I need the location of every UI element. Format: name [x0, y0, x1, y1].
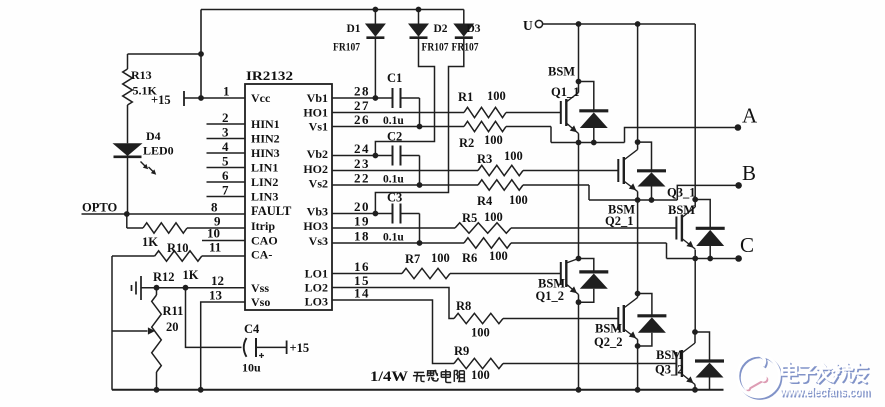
svg-text:BSM: BSM	[656, 348, 683, 362]
wire HIN/LIN pin 6 stub	[207, 181, 246, 183]
wire phase C mid drop	[694, 259, 696, 333]
node top rail / D1 anode junction	[373, 7, 379, 13]
svg-text:LIN3: LIN3	[251, 190, 278, 204]
node bottom bus Q1_2 junction	[576, 387, 582, 393]
svg-text:Q3_2: Q3_2	[655, 363, 683, 377]
terminal C	[735, 255, 742, 262]
svg-text:0.1u: 0.1u	[383, 115, 404, 127]
svg-text:LO3: LO3	[305, 295, 328, 309]
wire HIN/LIN pin 2 stub	[207, 123, 246, 125]
svg-text:6: 6	[222, 168, 229, 183]
wire Vcc rail drop	[200, 10, 202, 99]
svg-text:C: C	[740, 233, 754, 257]
svg-text:LIN2: LIN2	[251, 175, 278, 189]
svg-text:C4: C4	[244, 322, 260, 336]
svg-text:Vb3: Vb3	[307, 205, 328, 219]
svg-text:HO2: HO2	[303, 162, 328, 176]
node Q1_1 emitter junction	[576, 140, 582, 146]
svg-text:IR2132: IR2132	[246, 68, 293, 83]
resistor R6 100 (Vs3)	[332, 238, 667, 265]
svg-text:22: 22	[354, 171, 370, 186]
svg-text:8: 8	[211, 200, 218, 215]
svg-text:Vcc: Vcc	[251, 91, 271, 105]
transistor Q2_1 BSM IGBT with freewheel diode	[605, 139, 666, 228]
svg-text:R2: R2	[459, 136, 474, 150]
svg-text:Vso: Vso	[251, 295, 270, 309]
svg-text:D1: D1	[347, 23, 361, 35]
svg-text:3: 3	[222, 125, 229, 140]
svg-text:Vs3: Vs3	[309, 234, 328, 248]
svg-text:10: 10	[207, 226, 220, 241]
wire phase C node line	[667, 258, 739, 260]
wire phase A output	[625, 128, 738, 143]
transistor Q1_2 BSM IGBT with freewheel diode	[536, 256, 609, 303]
wire phase A mid drop	[578, 143, 580, 259]
svg-text:Q1_1: Q1_1	[551, 85, 579, 99]
svg-text:Q2_1: Q2_1	[605, 214, 633, 228]
node bottom bus Vso junction	[198, 387, 204, 393]
diode D2 FR107	[408, 10, 449, 54]
svg-text:0.1u: 0.1u	[383, 174, 404, 186]
svg-text:11: 11	[209, 240, 221, 255]
svg-text:R4: R4	[477, 194, 493, 208]
wire phase A node line	[551, 142, 625, 144]
transistor Q3_2 BSM IGBT with freewheel diode	[655, 329, 724, 390]
wire CA- feedback drop	[111, 256, 113, 390]
wire Q1_2 emitter to bus	[578, 302, 580, 390]
svg-text:Q1_2: Q1_2	[536, 289, 564, 303]
OPTO input net / FAULT pin 8 wire	[82, 201, 246, 215]
wire HIN/LIN pin 4 stub	[207, 152, 246, 154]
wire phase B mid drop	[637, 200, 639, 294]
wire HIN/LIN pin 7 stub	[207, 196, 246, 198]
svg-text:R13: R13	[131, 68, 152, 82]
svg-text:D3: D3	[467, 23, 481, 35]
svg-text:Q2_2: Q2_2	[594, 335, 622, 349]
svg-text:+15: +15	[151, 93, 171, 107]
transistor Q3_1 BSM IGBT with freewheel diode	[667, 186, 725, 259]
node Q3_1 diode anode junction	[707, 256, 713, 262]
svg-text:Q3_1: Q3_1	[667, 186, 695, 200]
resistor R2 100 (Vs1)	[332, 121, 551, 150]
LED D4 LED0	[113, 105, 174, 214]
node OPTO-LED-FAULT junction	[124, 211, 130, 217]
+15 supply terminal at pin 1	[151, 91, 245, 107]
node Q2_1 emitter junction	[635, 197, 641, 203]
watermark elecfans logo	[738, 355, 781, 398]
node R11 top junction	[154, 285, 160, 291]
svg-text:100: 100	[431, 251, 450, 265]
svg-text:100: 100	[504, 149, 523, 163]
capacitor C2 0.1u	[332, 130, 422, 188]
svg-text:R7: R7	[405, 252, 420, 266]
node U bus phase B tap	[635, 21, 641, 27]
node bottom bus Q3_2 emitter junction	[692, 387, 698, 393]
wire phase B output	[677, 185, 738, 200]
svg-text:100: 100	[487, 89, 506, 103]
svg-text:HO1: HO1	[303, 106, 328, 120]
svg-text:13: 13	[209, 288, 223, 303]
svg-text:R1: R1	[458, 90, 473, 104]
svg-text:LO1: LO1	[305, 267, 328, 281]
svg-text:R5: R5	[462, 211, 477, 225]
svg-text:LIN1: LIN1	[251, 161, 278, 175]
svg-text:LED0: LED0	[143, 144, 174, 158]
resistor 1K on Itrip pin 9	[127, 214, 245, 249]
wire +15 top rail	[201, 9, 464, 11]
svg-text:FR107: FR107	[333, 42, 360, 54]
node bottom bus Q2_2 junction	[635, 387, 641, 393]
svg-text:R8: R8	[456, 299, 471, 313]
svg-text:2: 2	[222, 110, 229, 125]
wire Vss pin 12 line	[141, 268, 245, 288]
svg-text:HIN2: HIN2	[251, 132, 280, 146]
transistor Q2_2 BSM IGBT with freewheel diode	[594, 291, 666, 349]
svg-text:C3: C3	[387, 191, 402, 205]
capacitor C3 0.1u	[332, 191, 422, 246]
svg-text:100: 100	[509, 193, 528, 207]
wire phase B node line	[589, 199, 677, 201]
svg-text:LO2: LO2	[305, 281, 328, 295]
transistor Q1_1 BSM IGBT with freewheel diode	[548, 65, 608, 143]
node Q1_2 emitter-anode junction	[576, 299, 582, 305]
svg-text:C1: C1	[387, 71, 402, 85]
node Vcc-R13 junction	[198, 51, 204, 57]
svg-text:1K: 1K	[183, 268, 199, 282]
wire R13 top branch	[128, 53, 202, 55]
node bottom bus R11 junction	[154, 387, 160, 393]
svg-text:CA-: CA-	[251, 248, 272, 262]
resistor R7 100 (LO1 gate)	[332, 251, 561, 279]
svg-text:BSM: BSM	[548, 65, 575, 79]
diode D1 FR107	[333, 10, 386, 54]
svg-text:100: 100	[484, 210, 503, 224]
resistor R13 5.1K	[123, 54, 158, 105]
svg-text:D4: D4	[146, 129, 161, 143]
resistor R1 100 (HO1 gate)	[332, 89, 561, 118]
svg-text:4: 4	[222, 139, 229, 154]
resistor R9 100 (LO3 gate)	[332, 300, 676, 382]
resistor R3 100 (HO2 gate)	[332, 149, 618, 176]
resistor R5 100 (HO3 gate)	[332, 210, 676, 233]
U supply terminal	[523, 18, 543, 33]
svg-text:R10: R10	[167, 241, 189, 255]
svg-text:20: 20	[354, 199, 370, 214]
svg-text:FR107: FR107	[452, 42, 479, 54]
potentiometer R11 20	[152, 288, 184, 390]
svg-text:24: 24	[354, 141, 370, 156]
svg-text:FR107: FR107	[422, 42, 449, 54]
watermark elecfans text	[779, 363, 871, 401]
svg-text:R11: R11	[163, 304, 184, 318]
svg-text:B: B	[742, 161, 756, 185]
node Q2_1 diode anode junction	[649, 197, 655, 203]
node C4 branch junction	[183, 285, 189, 291]
+15 supply terminal at C4	[287, 341, 310, 356]
svg-text:Vb2: Vb2	[307, 147, 328, 161]
resistor R4 100 (Vs2)	[332, 180, 589, 208]
ground reference cell	[132, 276, 142, 300]
svg-text:OPTO: OPTO	[82, 201, 117, 215]
svg-text:www.elecfans.com: www.elecfans.com	[779, 384, 870, 399]
label 1/4W non-inductive resistors	[370, 369, 465, 385]
wire Vso pin 13 to emitter bus	[201, 302, 245, 390]
wire U bus	[543, 23, 696, 25]
svg-text:12: 12	[211, 273, 224, 288]
svg-text:FAULT: FAULT	[251, 204, 292, 218]
svg-text:1: 1	[223, 84, 230, 99]
svg-text:23: 23	[354, 156, 370, 171]
svg-text:1K: 1K	[142, 235, 158, 249]
svg-text:+15: +15	[290, 341, 310, 355]
wire Q2_2 emitter to bus	[637, 346, 639, 390]
svg-text:Itrip: Itrip	[251, 219, 275, 233]
resistor R8 100 (LO2 gate)	[332, 288, 618, 340]
svg-text:1/4W: 1/4W	[370, 369, 409, 385]
svg-text:HO3: HO3	[303, 219, 328, 233]
node Q1_1 diode anode junction	[591, 140, 597, 146]
node pin1 junction	[198, 95, 204, 101]
svg-text:27: 27	[354, 98, 370, 113]
svg-text:100: 100	[471, 368, 490, 382]
svg-text:28: 28	[354, 84, 370, 99]
capacitor C4 10u	[186, 288, 287, 375]
wire D2 cathode to Vb2 node	[375, 39, 434, 156]
svg-text:HIN3: HIN3	[251, 146, 280, 160]
potentiometer wiper wire	[112, 327, 155, 334]
svg-text:100: 100	[471, 326, 490, 340]
svg-text:BSM: BSM	[668, 203, 695, 217]
IC U1 IR2132 three-phase bridge driver	[245, 68, 332, 310]
svg-text:18: 18	[354, 229, 370, 244]
terminal A	[735, 124, 742, 131]
svg-text:U: U	[523, 18, 533, 33]
svg-text:7: 7	[222, 183, 229, 198]
svg-text:HIN1: HIN1	[251, 117, 280, 131]
node Q2_2 emitter-anode junction	[635, 343, 641, 349]
terminal B	[735, 182, 742, 189]
wire phase C collector drop	[694, 24, 696, 200]
wire CAO pin 10 stub	[202, 240, 245, 242]
wire HIN/LIN pin 3 stub	[207, 138, 246, 140]
svg-text:R9: R9	[454, 344, 469, 358]
svg-text:Vs2: Vs2	[309, 177, 328, 191]
svg-text:R12: R12	[153, 270, 175, 284]
svg-text:A: A	[742, 104, 758, 128]
svg-text:16: 16	[354, 259, 370, 274]
node U bus phase A tap	[576, 21, 582, 27]
resistor R10 1K on CA- pin 11	[112, 241, 245, 261]
svg-text:R6: R6	[462, 251, 477, 265]
svg-text:Vb1: Vb1	[307, 91, 328, 105]
diode D3 FR107	[452, 10, 481, 54]
svg-text:26: 26	[354, 112, 370, 127]
wire D3 cathode to Vb3 node	[375, 39, 463, 214]
svg-text:10u: 10u	[242, 361, 261, 375]
svg-text:100: 100	[484, 133, 503, 147]
svg-text:BSM: BSM	[595, 322, 622, 336]
wire D1 cathode to Vb1 node	[374, 39, 376, 98]
svg-text:100: 100	[489, 249, 508, 263]
svg-text:R3: R3	[477, 152, 492, 166]
wire phase B collector drop	[637, 24, 639, 142]
svg-text:CAO: CAO	[251, 234, 278, 248]
wire emitter bottom bus	[112, 389, 724, 391]
node Q3_1 emitter junction	[692, 256, 698, 262]
capacitor C1 0.1u	[332, 71, 422, 129]
svg-text:Vss: Vss	[251, 281, 269, 295]
svg-text:5: 5	[222, 154, 229, 169]
svg-text:0.1u: 0.1u	[383, 232, 404, 244]
svg-text:C2: C2	[387, 130, 402, 144]
wire HIN/LIN pin 5 stub	[207, 167, 246, 169]
node top rail / D2 anode junction	[416, 7, 422, 13]
svg-text:D2: D2	[434, 23, 448, 35]
svg-text:19: 19	[354, 214, 370, 229]
svg-text:20: 20	[166, 320, 179, 334]
wire phase A collector drop	[578, 24, 580, 82]
svg-text:Vs1: Vs1	[309, 120, 328, 134]
